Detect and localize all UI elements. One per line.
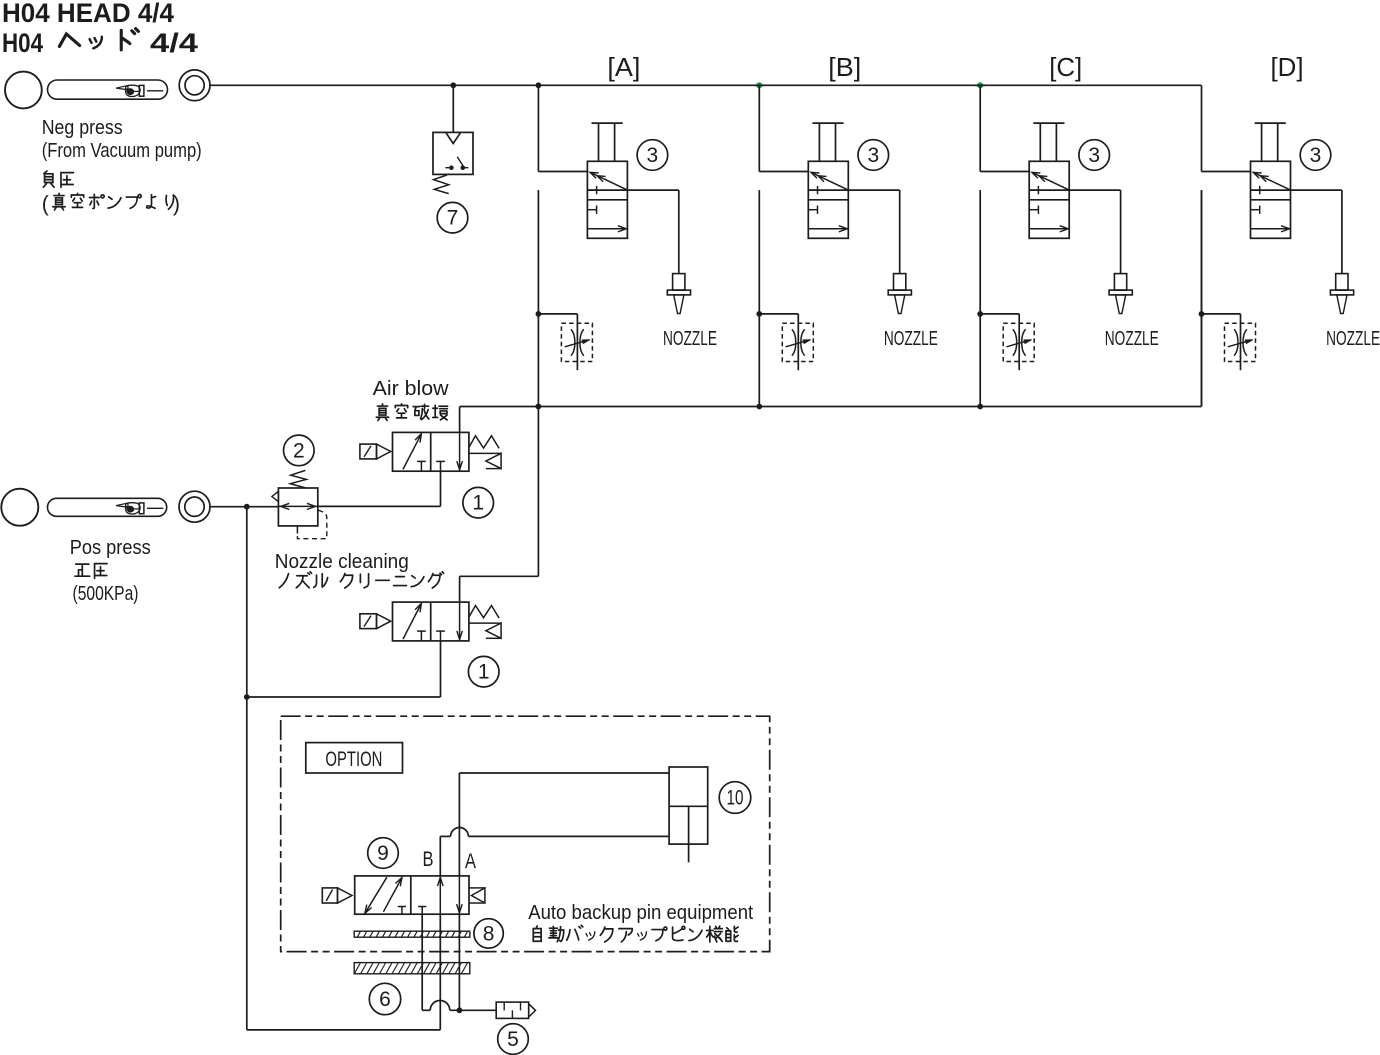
valve 3 section B body [808, 161, 848, 238]
wire valve-to-nozzle section D [1291, 189, 1342, 191]
balloon 6 [369, 983, 400, 1014]
svg-text:NOZZLE: NOZZLE [884, 328, 938, 350]
regulator 2 adjustment spring [290, 470, 306, 488]
pos press port circle [1, 489, 38, 526]
svg-text:Air blow: Air blow [373, 378, 450, 400]
valve 9 left-cell crossed flow arrows [366, 877, 387, 912]
wire to nozzle cleaning valve inlet [247, 696, 441, 698]
pressure switch 7 body [433, 132, 473, 174]
air blow valve 1 return spring [469, 436, 499, 449]
svg-text:Auto backup pin equipment: Auto backup pin equipment [528, 902, 753, 924]
svg-text:1: 1 [478, 661, 490, 684]
wire air blow valve to bus [459, 407, 461, 433]
svg-text:Pos press: Pos press [70, 537, 151, 559]
node junction bottom bus section A [536, 404, 542, 410]
node junction throttle branch section B [756, 311, 762, 317]
cylinder 10 body [669, 767, 708, 844]
svg-text:NOZZLE: NOZZLE [1326, 328, 1380, 350]
valve 3 section C top-cell flow diagonal [1033, 173, 1070, 190]
flow control (bleed throttle) section B [782, 323, 813, 361]
svg-text:NOZZLE: NOZZLE [663, 328, 717, 350]
balloon 9 [368, 838, 399, 869]
flow control (bleed throttle) section D [1225, 323, 1256, 361]
svg-text:NOZZLE: NOZZLE [1105, 328, 1159, 350]
wire valve9 supply line B-side down to pos supply [439, 914, 441, 1030]
wire feed drop section D [1201, 85, 1203, 171]
pos press node double circle [179, 491, 210, 522]
balloon 3 section C [1079, 140, 1110, 171]
pressure switch 7 V port symbol [446, 133, 460, 144]
svg-text:[C]: [C] [1049, 52, 1082, 82]
nozzle cleaning valve 1 body [393, 602, 469, 641]
wire pos press to regulator [210, 506, 278, 508]
balloon 8 [474, 919, 503, 948]
nozzle cleaning valve 1 return spring [469, 606, 499, 619]
wire regulator to air-blow valve [318, 505, 441, 507]
wire valve9 exhaust A-side down [458, 914, 460, 1010]
node junction on bus (green) section C [977, 82, 983, 88]
node junction bottom bus section B [756, 404, 762, 410]
nozzle symbol section C [1114, 274, 1126, 291]
wire port A to cylinder head [458, 773, 460, 876]
svg-text:B: B [423, 848, 434, 871]
node junction nozzle-clean supply [244, 694, 250, 700]
wire hop over supply line [430, 1001, 450, 1011]
node junction bottom bus section C [977, 404, 983, 410]
svg-text:[B]: [B] [828, 52, 861, 82]
wire exhaust branch section C [1029, 189, 1069, 191]
svg-text:2: 2 [293, 439, 305, 462]
svg-text:9: 9 [377, 842, 389, 865]
svg-text:1: 1 [472, 492, 484, 515]
label auto backup pin kinou (japanese) [533, 926, 541, 941]
wire nozzle cleaning output [459, 576, 461, 602]
valve 9 right-cell flow line A (down) [458, 876, 460, 914]
flow control (bleed throttle) section C [1003, 323, 1034, 361]
nozzle cleaning valve 1 solenoid [360, 614, 377, 629]
balloon 1 (air blow) [463, 487, 494, 518]
label sei-atsu (positive pressure) [75, 564, 90, 576]
nozzle cleaning valve 1 right-cell flow line [459, 602, 461, 641]
valve 3 section B top-cell blocked port [808, 189, 817, 191]
node junction throttle branch section C [977, 311, 983, 317]
hand icon pos [116, 503, 163, 514]
balloon 7 [437, 202, 468, 233]
nozzle cleaning valve 1 pilot exhaust triangle [469, 622, 501, 624]
valve 3 section C bottom-cell flow arrow [1029, 228, 1067, 230]
valve 3 section B top-cell flow diagonal [812, 173, 849, 190]
valve 9 left-cell blocked port [401, 907, 403, 915]
svg-text:(From Vacuum pump): (From Vacuum pump) [42, 140, 202, 162]
valve 9 pilot triangle right [469, 887, 485, 889]
nozzle symbol section A [673, 274, 685, 291]
nozzle symbol section B [894, 274, 906, 291]
backup plate 8 (hatched) [354, 931, 470, 937]
valve 9 right-cell blocked port with stub [421, 907, 423, 915]
svg-text:3: 3 [1088, 144, 1100, 167]
svg-text:(: ( [42, 191, 50, 216]
valve 3 section C plunger actuator [1033, 122, 1064, 124]
nozzle cleaning valve 1 right-cell blocked supply port [440, 631, 442, 641]
air blow valve 1 solenoid [360, 444, 377, 459]
balloon 3 section A [637, 140, 668, 171]
wire feed drop section B [758, 85, 760, 171]
svg-text:8: 8 [483, 922, 495, 945]
valve 3 section C top-cell blocked port [1029, 189, 1038, 191]
svg-text:A: A [465, 850, 476, 873]
air blow valve 1 right-cell flow line [459, 432, 461, 471]
neg press capsule with pointing hand [48, 80, 168, 99]
air blow valve 1 right-cell blocked supply port [440, 461, 442, 471]
wire bottom air-blow bus [460, 406, 1202, 408]
svg-text:3: 3 [867, 144, 879, 167]
nozzle cleaning valve 1 left-cell blocked port [420, 631, 422, 641]
cylinder 10 piston [669, 805, 708, 807]
svg-text:3: 3 [1310, 144, 1322, 167]
label nozzle cleaning (japanese) [279, 574, 288, 588]
wire feed drop section C [979, 85, 981, 171]
valve 3 section A top-cell flow diagonal [591, 173, 628, 190]
regulator 2 pilot feedback dashed [297, 510, 326, 539]
node junction pos supply [244, 504, 250, 510]
neg press node double circle [179, 70, 210, 101]
valve 9 right-cell flow line B (up) [439, 876, 441, 914]
label shinkuu hakai (vacuum break) [376, 404, 388, 421]
node junction on bus (green) section B [756, 82, 762, 88]
label fu-atsu (negative pressure) [43, 171, 54, 187]
hand icon neg [116, 85, 163, 96]
wire exhaust branch section D [1251, 189, 1291, 191]
valve 3 section D top-cell blocked port [1251, 189, 1260, 191]
pressure switch 7 spring [434, 175, 449, 194]
valve 3 section A plunger actuator [592, 122, 623, 124]
svg-text:5: 5 [507, 1028, 519, 1051]
valve 9 solenoid left [322, 888, 337, 903]
svg-text:[A]: [A] [607, 52, 640, 82]
air blow valve 1 left-cell flow diagonal [403, 435, 421, 470]
regulator 2 pilot stub [296, 526, 298, 534]
svg-text:[D]: [D] [1271, 52, 1304, 82]
svg-text:H04: H04 [2, 28, 43, 58]
nozzle cleaning valve 1 left-cell flow diagonal [403, 604, 421, 639]
svg-text:): ) [173, 191, 180, 216]
wire exhaust branch section A [587, 189, 627, 191]
valve 3 section D body [1251, 161, 1291, 238]
wire valve9 port stub down (x=422) [421, 914, 423, 1010]
svg-text:(500KPa): (500KPa) [73, 583, 139, 605]
wire valve-to-nozzle section B [848, 189, 899, 191]
cylinder 10 rod [688, 806, 690, 862]
valve 3 section C body [1029, 161, 1069, 238]
valve 3 section D plunger actuator [1255, 122, 1286, 124]
valve 9 body [355, 876, 469, 914]
flow control (bleed throttle) section A [561, 323, 592, 361]
svg-text:6: 6 [379, 988, 391, 1011]
svg-text:3: 3 [647, 144, 659, 167]
wire drop to pressure switch 7 [452, 85, 454, 132]
neg press port circle [5, 72, 42, 109]
svg-text:Nozzle cleaning: Nozzle cleaning [275, 551, 409, 573]
balloon 1 (nozzle cleaning) [468, 656, 499, 687]
valve 3 section A bottom-cell flow arrow [587, 228, 625, 230]
balloon 2 [284, 435, 315, 466]
valve 3 section D top-cell flow diagonal [1254, 173, 1291, 190]
svg-text:4/4: 4/4 [150, 28, 198, 58]
wire exhaust branch section B [808, 189, 848, 191]
balloon 10 [719, 782, 751, 814]
balloon 3 section B [858, 140, 889, 171]
pos press capsule with pointing hand [48, 498, 167, 516]
air blow valve 1 pilot exhaust triangle [469, 452, 501, 454]
balloon 3 section D [1300, 140, 1331, 171]
node junction on bus at x=453 [450, 82, 456, 88]
air blow valve 1 left-cell blocked port [420, 461, 422, 471]
svg-text:Neg press: Neg press [42, 117, 123, 139]
air blow valve 1 body [393, 432, 469, 471]
nozzle symbol section D [1336, 274, 1348, 291]
regulator 2 flow line with arrows [278, 505, 317, 507]
node junction on bus section A [536, 82, 542, 88]
svg-text:H04 HEAD 4/4: H04 HEAD 4/4 [2, 0, 174, 28]
wire pos supply down-run [246, 507, 248, 1030]
wire port B to cylinder rod side with crossover hop [439, 836, 441, 876]
valve 3 section A body [587, 161, 627, 238]
silencer 5 cone [529, 1004, 536, 1017]
valve 3 section B plunger actuator [812, 122, 843, 124]
valve 3 section B bottom-cell blocked port [808, 209, 817, 211]
valve 3 section C bottom-cell blocked port [1029, 209, 1038, 211]
valve 3 section B bottom-cell flow arrow [808, 228, 846, 230]
wire valve-to-nozzle section C [1069, 189, 1120, 191]
valve 3 section A top-cell blocked port [587, 189, 596, 191]
svg-text:10: 10 [727, 787, 744, 810]
regulator 2 relief triangle [272, 491, 279, 501]
node junction throttle branch section A [536, 311, 542, 317]
wire feed drop section A [537, 85, 539, 171]
option enclosure dash-dot box [281, 716, 770, 951]
OPTION label box [306, 743, 403, 773]
valve 3 section A bottom-cell blocked port [587, 209, 596, 211]
silencer 5 body [496, 1002, 529, 1018]
node junction at silencer branch [457, 1007, 463, 1013]
valve 3 section D bottom-cell flow arrow [1251, 228, 1289, 230]
node junction output into bus [536, 404, 542, 410]
base plate 6 (hatched) [354, 963, 470, 974]
valve 3 section D bottom-cell blocked port [1251, 209, 1260, 211]
wire valve-to-nozzle section A [627, 189, 678, 191]
svg-text:OPTION: OPTION [325, 748, 382, 771]
wire section D right-side drop to bus [1201, 190, 1203, 406]
wire top vacuum bus [210, 84, 1202, 86]
svg-text:7: 7 [447, 207, 459, 230]
balloon 5 [498, 1024, 529, 1055]
regulator 2 body [278, 488, 317, 526]
pressure switch 7 electric contact [445, 167, 449, 169]
node junction throttle branch section D [1199, 311, 1205, 317]
